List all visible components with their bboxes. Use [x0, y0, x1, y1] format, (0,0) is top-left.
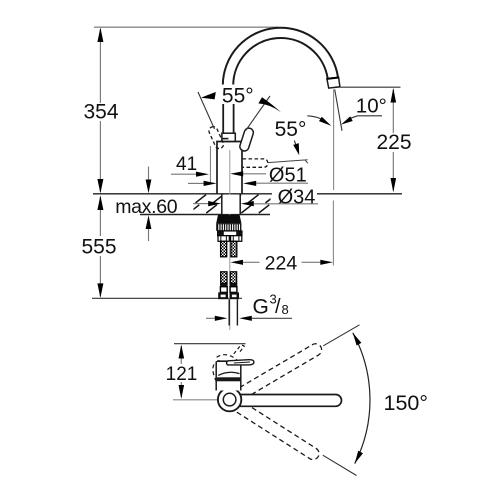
- svg-text:225: 225: [376, 131, 411, 154]
- svg-text:41: 41: [176, 154, 197, 175]
- svg-text:G: G: [253, 296, 269, 319]
- svg-text:55°: 55°: [275, 118, 307, 141]
- svg-text:55°: 55°: [222, 84, 254, 107]
- svg-text:354: 354: [83, 101, 118, 124]
- svg-text:555: 555: [81, 235, 116, 258]
- svg-text:10°: 10°: [356, 95, 387, 118]
- svg-text:max.60: max.60: [115, 196, 178, 218]
- svg-text:150°: 150°: [384, 391, 428, 415]
- svg-text:/: /: [275, 296, 281, 318]
- svg-text:Ø34: Ø34: [278, 186, 316, 208]
- svg-text:224: 224: [265, 253, 298, 275]
- svg-text:8: 8: [282, 302, 289, 317]
- svg-text:121: 121: [166, 364, 198, 385]
